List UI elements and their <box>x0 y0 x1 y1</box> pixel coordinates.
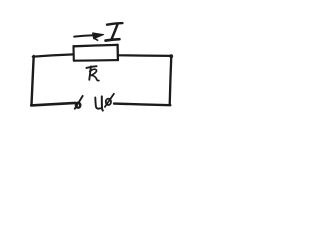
current arrow I <box>74 33 104 40</box>
terminal (left, slashed) <box>75 96 83 109</box>
wire <box>31 103 75 106</box>
wire <box>114 104 170 106</box>
label I (current) <box>106 23 123 40</box>
wire <box>170 56 172 105</box>
label U (voltage) <box>95 96 103 110</box>
wire <box>118 54 171 57</box>
terminal (right, slashed) <box>105 94 114 107</box>
label R (resistor value) <box>86 66 99 80</box>
node (top-right corner junction) <box>169 54 173 58</box>
wire <box>33 54 74 56</box>
wire <box>32 56 34 105</box>
resistor R <box>74 45 119 61</box>
